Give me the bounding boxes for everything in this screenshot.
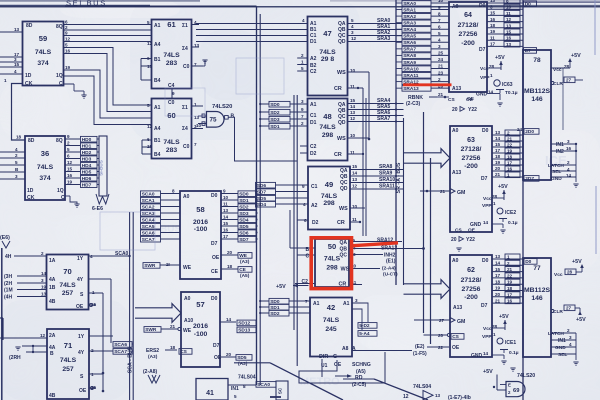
svg-text:A0: A0 <box>452 4 459 10</box>
svg-text:21: 21 <box>495 172 501 177</box>
svg-text:SCA0: SCA0 <box>115 251 129 257</box>
svg-text:13: 13 <box>506 42 512 47</box>
svg-text:4B: 4B <box>49 393 56 399</box>
svg-text:SRA2: SRA2 <box>403 14 416 20</box>
svg-text:SD3: SD3 <box>239 211 249 217</box>
svg-text:1A: 1A <box>49 258 56 264</box>
svg-text:257: 257 <box>62 290 74 297</box>
svg-text:48: 48 <box>323 112 331 121</box>
svg-text:C: C <box>61 195 65 201</box>
svg-text:OE: OE <box>334 362 342 368</box>
svg-text:C2: C2 <box>310 69 317 75</box>
svg-text:15: 15 <box>14 62 20 67</box>
svg-text:SD1: SD1 <box>270 305 280 311</box>
svg-text:IN1: IN1 <box>558 338 566 344</box>
svg-text:RD: RD <box>355 375 363 381</box>
svg-text:HD0: HD0 <box>82 137 92 143</box>
svg-text:6: 6 <box>67 154 70 159</box>
svg-text:22: 22 <box>507 143 513 148</box>
svg-text:8Q: 8Q <box>56 138 63 144</box>
svg-text:1D: 1D <box>25 73 32 79</box>
svg-text:B: B <box>50 351 54 357</box>
svg-text:15: 15 <box>352 164 358 169</box>
svg-text:12: 12 <box>147 124 153 129</box>
svg-text:16: 16 <box>67 173 73 178</box>
svg-text:10: 10 <box>438 0 444 3</box>
svg-text:2: 2 <box>41 251 44 256</box>
svg-text:+5V: +5V <box>576 317 586 323</box>
svg-text:WS: WS <box>337 136 346 142</box>
svg-text:12: 12 <box>350 116 356 121</box>
svg-text:A2: A2 <box>311 203 318 209</box>
svg-text:11: 11 <box>506 11 511 16</box>
svg-text:27: 27 <box>566 78 572 83</box>
svg-text:A1: A1 <box>343 301 350 307</box>
svg-text:27: 27 <box>566 306 572 311</box>
svg-text:3: 3 <box>355 298 358 303</box>
svg-text:5: 5 <box>438 31 441 36</box>
svg-text:1Q: 1Q <box>57 188 64 194</box>
svg-text:2: 2 <box>15 153 18 158</box>
svg-text:4A: 4A <box>49 277 56 283</box>
svg-text:D1: D1 <box>310 120 317 126</box>
svg-text:20: 20 <box>452 107 458 113</box>
svg-text:1: 1 <box>493 332 496 337</box>
svg-text:2: 2 <box>507 261 510 266</box>
svg-text:SWR: SWR <box>145 327 157 333</box>
svg-text:17: 17 <box>223 234 229 239</box>
svg-text:2D0: 2D0 <box>525 129 534 135</box>
svg-text:63: 63 <box>467 137 475 144</box>
svg-text:SRA8: SRA8 <box>403 53 416 59</box>
svg-text:74LS20: 74LS20 <box>212 104 232 110</box>
svg-text:12: 12 <box>67 160 73 165</box>
svg-text:12: 12 <box>506 17 512 22</box>
svg-text:69: 69 <box>513 388 520 394</box>
svg-text:SC: SC <box>278 387 283 394</box>
svg-text:GND: GND <box>471 353 483 359</box>
svg-text:18: 18 <box>507 155 513 160</box>
svg-text:GND: GND <box>476 92 488 98</box>
svg-text:SCA0: SCA0 <box>142 191 155 197</box>
svg-text:Y22: Y22 <box>466 237 475 243</box>
svg-text:SRA7: SRA7 <box>377 116 391 122</box>
svg-text:SD1: SD1 <box>270 124 280 130</box>
svg-text:SD2: SD2 <box>239 204 249 210</box>
svg-text:19: 19 <box>495 160 501 165</box>
svg-text:Σ1: Σ1 <box>182 23 188 29</box>
svg-text:WE: WE <box>183 265 192 271</box>
svg-text:LATCH: LATCH <box>548 331 564 337</box>
svg-text:T0.1μ: T0.1μ <box>505 90 518 96</box>
svg-text:METRO: METRO <box>300 376 340 388</box>
svg-text:SWR: SWR <box>144 263 156 269</box>
svg-text:GND: GND <box>470 222 482 228</box>
svg-text:SD7: SD7 <box>257 189 267 195</box>
svg-text:13: 13 <box>223 208 229 213</box>
svg-text:9: 9 <box>302 184 305 189</box>
svg-text:6: 6 <box>65 20 68 25</box>
svg-text:SD2: SD2 <box>270 110 280 116</box>
svg-text:A0: A0 <box>452 128 459 134</box>
svg-text:4B: 4B <box>49 299 56 305</box>
svg-text:D0: D0 <box>211 193 218 199</box>
svg-text:13: 13 <box>352 177 358 182</box>
svg-text:A1: A1 <box>154 23 161 29</box>
svg-text:74LS: 74LS <box>321 193 338 200</box>
svg-text:74LS: 74LS <box>35 49 52 56</box>
svg-text:+5V: +5V <box>572 259 582 265</box>
svg-text:SD3: SD3 <box>270 117 280 123</box>
svg-text:15: 15 <box>350 98 356 103</box>
svg-text:D7: D7 <box>525 48 531 54</box>
svg-text:74LS: 74LS <box>59 282 76 289</box>
svg-text:74LS20: 74LS20 <box>517 373 535 379</box>
svg-text:D0: D0 <box>525 259 531 265</box>
svg-text:Vcc: Vcc <box>554 272 563 278</box>
svg-text:0.1μ: 0.1μ <box>509 350 519 356</box>
svg-text:(4H: (4H <box>4 295 12 301</box>
svg-text:21: 21 <box>507 267 513 272</box>
svg-text:12: 12 <box>351 36 357 41</box>
svg-text:SRA5: SRA5 <box>403 34 416 40</box>
svg-text:42: 42 <box>327 303 335 312</box>
svg-text:(1-F5): (1-F5) <box>413 351 427 357</box>
svg-text:(3H: (3H <box>4 274 12 280</box>
svg-text:18: 18 <box>490 23 496 28</box>
svg-text:A0: A0 <box>452 258 459 264</box>
svg-text:15: 15 <box>495 142 501 147</box>
svg-text:9: 9 <box>67 134 70 139</box>
svg-text:27128/: 27128/ <box>461 146 482 153</box>
svg-text:27256: 27256 <box>462 286 481 293</box>
svg-text:(2-A8): (2-A8) <box>143 369 158 375</box>
svg-text:SEL: SEL <box>552 169 561 175</box>
svg-text:SD6: SD6 <box>257 183 267 189</box>
svg-text:A0: A0 <box>183 194 190 200</box>
svg-text:18: 18 <box>170 345 176 350</box>
svg-text:19: 19 <box>67 180 73 185</box>
svg-text:21: 21 <box>170 324 176 329</box>
svg-text:14: 14 <box>226 317 232 322</box>
svg-text:24: 24 <box>438 57 444 62</box>
svg-text:57: 57 <box>196 300 204 309</box>
svg-text:CR: CR <box>334 86 342 92</box>
svg-text:OE: OE <box>467 96 475 102</box>
svg-text:SRA4: SRA4 <box>403 27 416 33</box>
svg-text:74LS: 74LS <box>60 357 77 364</box>
svg-text:1: 1 <box>507 255 510 260</box>
svg-text:17: 17 <box>490 42 496 47</box>
svg-text:12: 12 <box>403 394 409 400</box>
svg-text:C1: C1 <box>310 113 317 119</box>
svg-text:13: 13 <box>506 23 512 28</box>
svg-text:C2: C2 <box>302 279 309 285</box>
svg-text:(A3): (A3) <box>148 354 158 360</box>
svg-text:CS: CS <box>455 228 462 234</box>
svg-text:QD: QD <box>338 120 346 126</box>
svg-text:ERS2: ERS2 <box>146 348 159 354</box>
svg-text:OE: OE <box>212 255 220 261</box>
svg-text:IN2: IN2 <box>556 149 564 155</box>
svg-text:VPP: VPP <box>480 75 490 81</box>
svg-text:(1M: (1M <box>4 288 13 294</box>
svg-text:SCA1: SCA1 <box>142 198 155 204</box>
svg-text:29 8: 29 8 <box>321 56 334 63</box>
svg-text:27128/: 27128/ <box>461 277 482 284</box>
svg-text:SD0: SD0 <box>239 191 249 197</box>
svg-text:4Y: 4Y <box>77 277 84 283</box>
svg-text:2: 2 <box>301 121 304 126</box>
svg-text:60: 60 <box>167 111 175 120</box>
svg-text:(A3): (A3) <box>238 361 248 367</box>
svg-text:Vcc: Vcc <box>483 326 492 332</box>
svg-text:3: 3 <box>301 99 304 104</box>
svg-text:74LS: 74LS <box>323 317 340 324</box>
svg-text:298: 298 <box>326 265 338 272</box>
svg-text:D2: D2 <box>310 151 317 157</box>
svg-text:3: 3 <box>438 44 441 49</box>
svg-text:298: 298 <box>322 132 334 139</box>
svg-text:28: 28 <box>567 270 573 275</box>
svg-text:(2H: (2H <box>4 281 12 287</box>
svg-text:8: 8 <box>438 11 441 16</box>
svg-text:5: 5 <box>67 147 70 152</box>
svg-text:7: 7 <box>194 142 197 147</box>
svg-text:SRA10: SRA10 <box>379 177 395 183</box>
svg-text:CK: CK <box>27 195 35 201</box>
svg-text:SD1: SD1 <box>239 198 249 204</box>
svg-text:12: 12 <box>40 333 46 338</box>
svg-text:77: 77 <box>533 265 541 272</box>
svg-text:8Q: 8Q <box>56 24 63 30</box>
svg-text:8: 8 <box>243 384 246 389</box>
svg-text:8: 8 <box>172 189 175 194</box>
svg-text:VPP: VPP <box>482 203 492 209</box>
svg-text:18: 18 <box>495 154 501 159</box>
svg-text:2A: 2A <box>49 333 56 339</box>
svg-text:2016: 2016 <box>193 323 208 330</box>
svg-text:SCA6: SCA6 <box>142 230 155 236</box>
svg-text:74LS: 74LS <box>319 124 336 131</box>
svg-text:OE: OE <box>79 388 87 394</box>
svg-text:3: 3 <box>351 30 354 35</box>
svg-text:3: 3 <box>15 174 18 179</box>
svg-text:21: 21 <box>507 137 513 142</box>
svg-text:SD0: SD0 <box>270 102 280 108</box>
svg-text:13: 13 <box>435 393 441 398</box>
svg-text:HD5: HD5 <box>82 169 92 175</box>
svg-text:41: 41 <box>206 390 214 397</box>
svg-text:SD0: SD0 <box>270 299 280 305</box>
svg-text:5-A4: 5-A4 <box>359 331 370 337</box>
svg-text:7: 7 <box>301 114 304 119</box>
svg-text:5: 5 <box>15 160 18 165</box>
svg-text:5-D2: 5-D2 <box>359 323 370 329</box>
svg-text:QC: QC <box>340 253 348 259</box>
svg-text:A13: A13 <box>453 305 462 311</box>
svg-text:16: 16 <box>507 299 513 304</box>
svg-text:16: 16 <box>65 49 71 54</box>
svg-text:D0: D0 <box>482 258 489 264</box>
svg-text:11: 11 <box>352 217 357 222</box>
svg-text:WE: WE <box>239 253 248 259</box>
svg-text:MB112S: MB112S <box>524 88 551 95</box>
svg-text:C2: C2 <box>310 144 317 150</box>
svg-text:GM: GM <box>457 319 465 325</box>
svg-text:CS: CS <box>180 349 187 355</box>
svg-text:SRA13: SRA13 <box>403 86 419 92</box>
svg-text:23: 23 <box>438 70 444 75</box>
svg-text:SRA8: SRA8 <box>379 164 393 170</box>
svg-text:2: 2 <box>567 328 570 333</box>
svg-text:SCHNG: SCHNG <box>352 362 371 368</box>
svg-text:14: 14 <box>495 261 501 266</box>
svg-text:D0: D0 <box>479 3 486 9</box>
svg-text:4: 4 <box>15 147 18 152</box>
svg-text:10: 10 <box>223 195 229 200</box>
svg-text:7: 7 <box>438 18 441 23</box>
svg-text:OE: OE <box>452 345 460 351</box>
svg-text:(A3): (A3) <box>240 259 250 265</box>
svg-text:8D: 8D <box>26 23 33 29</box>
svg-text:20: 20 <box>451 237 457 243</box>
svg-text:19: 19 <box>41 285 47 290</box>
svg-text:SRA9: SRA9 <box>403 60 416 66</box>
svg-text:74LS: 74LS <box>319 49 336 56</box>
svg-text:DIR: DIR <box>319 354 328 360</box>
svg-text:CR: CR <box>337 220 345 226</box>
svg-text:SRA0: SRA0 <box>403 1 416 7</box>
svg-text:14: 14 <box>352 171 358 176</box>
svg-text:27128/: 27128/ <box>458 22 479 29</box>
svg-text:SCA4: SCA4 <box>142 217 155 223</box>
svg-text:B: B <box>231 114 235 120</box>
svg-text:20: 20 <box>495 292 501 297</box>
svg-text:OE: OE <box>214 355 222 361</box>
svg-text:9: 9 <box>223 189 226 194</box>
svg-text:D7: D7 <box>479 47 486 53</box>
svg-text:SD4: SD4 <box>257 202 267 208</box>
svg-text:D7: D7 <box>213 343 220 349</box>
svg-text:13: 13 <box>495 254 501 259</box>
svg-text:ICE1: ICE1 <box>505 340 516 346</box>
svg-text:SD7: SD7 <box>239 237 249 243</box>
svg-text:(A5): (A5) <box>240 273 250 279</box>
svg-text:+5V: +5V <box>498 184 508 190</box>
svg-text:18: 18 <box>507 286 513 291</box>
svg-text:2D7: 2D7 <box>525 176 534 182</box>
svg-text:SRA13: SRA13 <box>381 246 397 252</box>
svg-text:(E1): (E1) <box>386 259 396 265</box>
svg-text:374: 374 <box>39 175 51 182</box>
svg-text:14: 14 <box>223 215 229 220</box>
svg-text:15: 15 <box>506 30 512 35</box>
svg-text:Vcc: Vcc <box>483 196 492 202</box>
svg-text:C0: C0 <box>183 64 190 70</box>
svg-text:IN1: IN1 <box>231 386 239 392</box>
svg-text:D0: D0 <box>211 296 218 302</box>
svg-text:61: 61 <box>167 20 176 29</box>
svg-text:MB112S: MB112S <box>524 287 551 294</box>
svg-text:SD12: SD12 <box>238 321 250 327</box>
svg-text:14: 14 <box>483 220 489 225</box>
svg-text:SCA2: SCA2 <box>142 204 155 210</box>
svg-text:16: 16 <box>507 167 513 172</box>
svg-text:SD5: SD5 <box>237 355 247 361</box>
svg-text:D0: D0 <box>482 128 489 134</box>
svg-text:5: 5 <box>147 103 150 108</box>
svg-text:IC63: IC63 <box>502 82 513 88</box>
svg-text:21: 21 <box>495 298 501 303</box>
svg-text:SRA1: SRA1 <box>403 7 416 13</box>
svg-text:5: 5 <box>301 66 304 71</box>
svg-text:24: 24 <box>517 127 523 132</box>
svg-text:A4: A4 <box>154 126 161 132</box>
svg-text:SRA11: SRA11 <box>379 184 395 190</box>
svg-text:14: 14 <box>495 136 501 141</box>
svg-text:374: 374 <box>37 60 49 67</box>
svg-text:10: 10 <box>506 5 512 10</box>
svg-text:WS: WS <box>341 267 350 273</box>
svg-text:14: 14 <box>483 351 489 356</box>
svg-text:A4: A4 <box>154 42 161 48</box>
svg-text:21: 21 <box>438 92 444 97</box>
svg-text:B1: B1 <box>154 57 161 63</box>
svg-text:A1: A1 <box>154 105 161 111</box>
svg-text:257: 257 <box>62 366 74 373</box>
svg-text:9: 9 <box>301 107 304 112</box>
svg-text:16: 16 <box>490 17 496 22</box>
svg-text:27256: 27256 <box>459 31 478 38</box>
svg-text:SD13: SD13 <box>238 328 250 334</box>
svg-text:1: 1 <box>493 201 496 206</box>
svg-text:1: 1 <box>301 60 304 65</box>
svg-text:5: 5 <box>234 394 237 399</box>
svg-text:1B: 1B <box>49 285 56 291</box>
svg-text:15: 15 <box>495 267 501 272</box>
svg-text:CK: CK <box>25 81 33 87</box>
svg-text:9: 9 <box>438 5 441 10</box>
svg-text:HD6: HD6 <box>82 176 92 182</box>
svg-text:Σ1: Σ1 <box>182 105 188 111</box>
svg-text:74LS: 74LS <box>324 256 341 263</box>
svg-text:4: 4 <box>438 38 441 43</box>
svg-text:+5V: +5V <box>483 369 493 375</box>
svg-text:-200: -200 <box>464 163 478 170</box>
svg-text:HD1: HD1 <box>82 143 92 149</box>
svg-text:WS: WS <box>337 70 346 76</box>
svg-text:2: 2 <box>567 160 570 165</box>
svg-text:D7: D7 <box>481 176 488 182</box>
svg-text:12: 12 <box>65 37 71 42</box>
svg-text:14: 14 <box>41 271 47 276</box>
svg-text:-200: -200 <box>461 40 475 47</box>
svg-text:4Y: 4Y <box>78 350 85 356</box>
svg-text:36: 36 <box>41 149 49 158</box>
svg-text:245: 245 <box>325 326 337 333</box>
svg-text:A: A <box>352 346 356 352</box>
svg-text:2: 2 <box>67 141 70 146</box>
svg-text:A0: A0 <box>184 296 191 302</box>
svg-text:GND: GND <box>555 345 566 351</box>
svg-text:-200: -200 <box>464 294 478 301</box>
svg-text:-100: -100 <box>194 331 208 338</box>
svg-text:SRA11: SRA11 <box>403 73 419 79</box>
svg-text:SCA - BUS: SCA - BUS <box>128 346 134 373</box>
svg-text:8D: 8D <box>28 138 35 144</box>
svg-text:CR: CR <box>334 152 342 158</box>
